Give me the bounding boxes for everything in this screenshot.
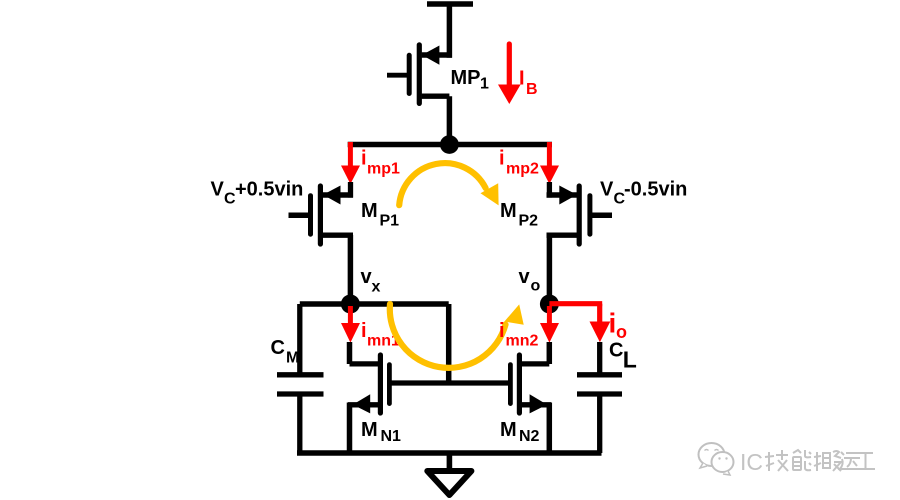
svg-text:P1: P1: [380, 213, 400, 230]
transistor MP1 left input PMOS: [289, 182, 354, 244]
label imn2: [499, 320, 539, 350]
svg-text:i: i: [361, 148, 367, 170]
label vo: [519, 266, 541, 295]
svg-text:N2: N2: [519, 428, 540, 445]
current arrow IB (red): [498, 44, 521, 104]
svg-text:V: V: [600, 178, 614, 200]
glyph 能: [793, 450, 811, 470]
node vo: [540, 295, 559, 314]
label VC+0.5vin (gate of MP1 left): [211, 178, 304, 207]
wire MP1 drain to tail node: [447, 96, 453, 144]
svg-text:M: M: [500, 419, 517, 441]
svg-text:P2: P2: [519, 213, 539, 230]
svg-text:I: I: [519, 68, 525, 90]
capacitor CL: [577, 342, 622, 453]
glyph 运: [840, 452, 860, 469]
wire ground stem: [447, 453, 453, 472]
label MN2: [500, 419, 540, 445]
glyph 搬: [814, 451, 841, 471]
svg-text:IC: IC: [740, 449, 763, 475]
svg-text:M: M: [286, 350, 299, 367]
glyph 技: [765, 450, 788, 471]
svg-text:mn2: mn2: [506, 333, 539, 350]
svg-text:-0.5vin: -0.5vin: [624, 178, 687, 200]
svg-text:i: i: [499, 320, 505, 342]
svg-text:i: i: [499, 148, 505, 170]
wire vx rail to CM and mirror gate: [300, 304, 449, 383]
label VC-0.5vin (gate of MP2 right): [600, 178, 687, 207]
svg-text:M: M: [361, 200, 378, 222]
node vx: [341, 295, 360, 314]
node tail junction: [440, 135, 459, 154]
label MN1: [361, 419, 401, 445]
capacitor CM: [277, 304, 324, 453]
watermark logo (chat bubbles): [699, 443, 734, 475]
svg-text:+0.5vin: +0.5vin: [235, 178, 303, 200]
svg-text:i: i: [361, 320, 367, 342]
svg-text:N1: N1: [381, 428, 402, 445]
svg-text:L: L: [623, 347, 637, 373]
current arrow imp2 (red): [540, 142, 559, 184]
svg-text:M: M: [361, 419, 378, 441]
svg-text:o: o: [531, 278, 541, 295]
wire tail rail horizontal: [348, 142, 552, 148]
transistor MN2 (right mirror NMOS): [510, 342, 551, 453]
wire ground rail: [297, 450, 602, 456]
svg-text:C: C: [271, 337, 285, 359]
current arrow io (red): [590, 322, 611, 343]
glyph 工: [856, 453, 875, 469]
svg-text:V: V: [211, 178, 225, 200]
ground symbol: [427, 471, 471, 495]
wire mirror gate rail: [389, 380, 511, 385]
transistor MN1 (left mirror NMOS): [348, 342, 389, 453]
watermark text: [740, 449, 875, 475]
label MP1 (left pair): [361, 200, 399, 230]
label MP2 (right pair): [500, 200, 538, 230]
label imp2: [499, 148, 539, 178]
svg-text:v: v: [519, 266, 531, 288]
wire MP1 drain to node vx: [348, 235, 354, 304]
label io: [609, 308, 628, 343]
wire MP2 drain to node vo: [547, 235, 553, 304]
transistor MP1 (tail current source PMOS): [387, 45, 452, 104]
current arrow imp1 (red): [341, 142, 360, 184]
svg-text:mp2: mp2: [506, 161, 539, 178]
current arrow imn2 (red): [540, 306, 559, 343]
wire vo to io branch (red): [549, 304, 602, 322]
label IB: [519, 68, 538, 99]
wire VDD stem to MP1 source: [447, 4, 453, 58]
curved arrow bottom (yellow): [390, 304, 524, 368]
svg-text:B: B: [526, 81, 538, 98]
label imp1: [361, 148, 400, 178]
svg-text:x: x: [372, 279, 381, 296]
VDD supply bar: [427, 1, 473, 7]
current arrow imn1 (red): [341, 306, 360, 343]
label vx: [361, 266, 381, 296]
curved arrow top (yellow): [399, 163, 498, 205]
label CM: [271, 337, 300, 367]
svg-text:M: M: [500, 200, 517, 222]
svg-text:C: C: [609, 340, 623, 362]
svg-text:mp1: mp1: [367, 161, 400, 178]
svg-text:MP: MP: [451, 67, 481, 89]
svg-text:1: 1: [480, 76, 489, 93]
label CL: [609, 340, 637, 373]
label imn1: [361, 320, 400, 350]
transistor MP2 right input PMOS: [547, 182, 613, 244]
label MP1: [451, 67, 490, 93]
